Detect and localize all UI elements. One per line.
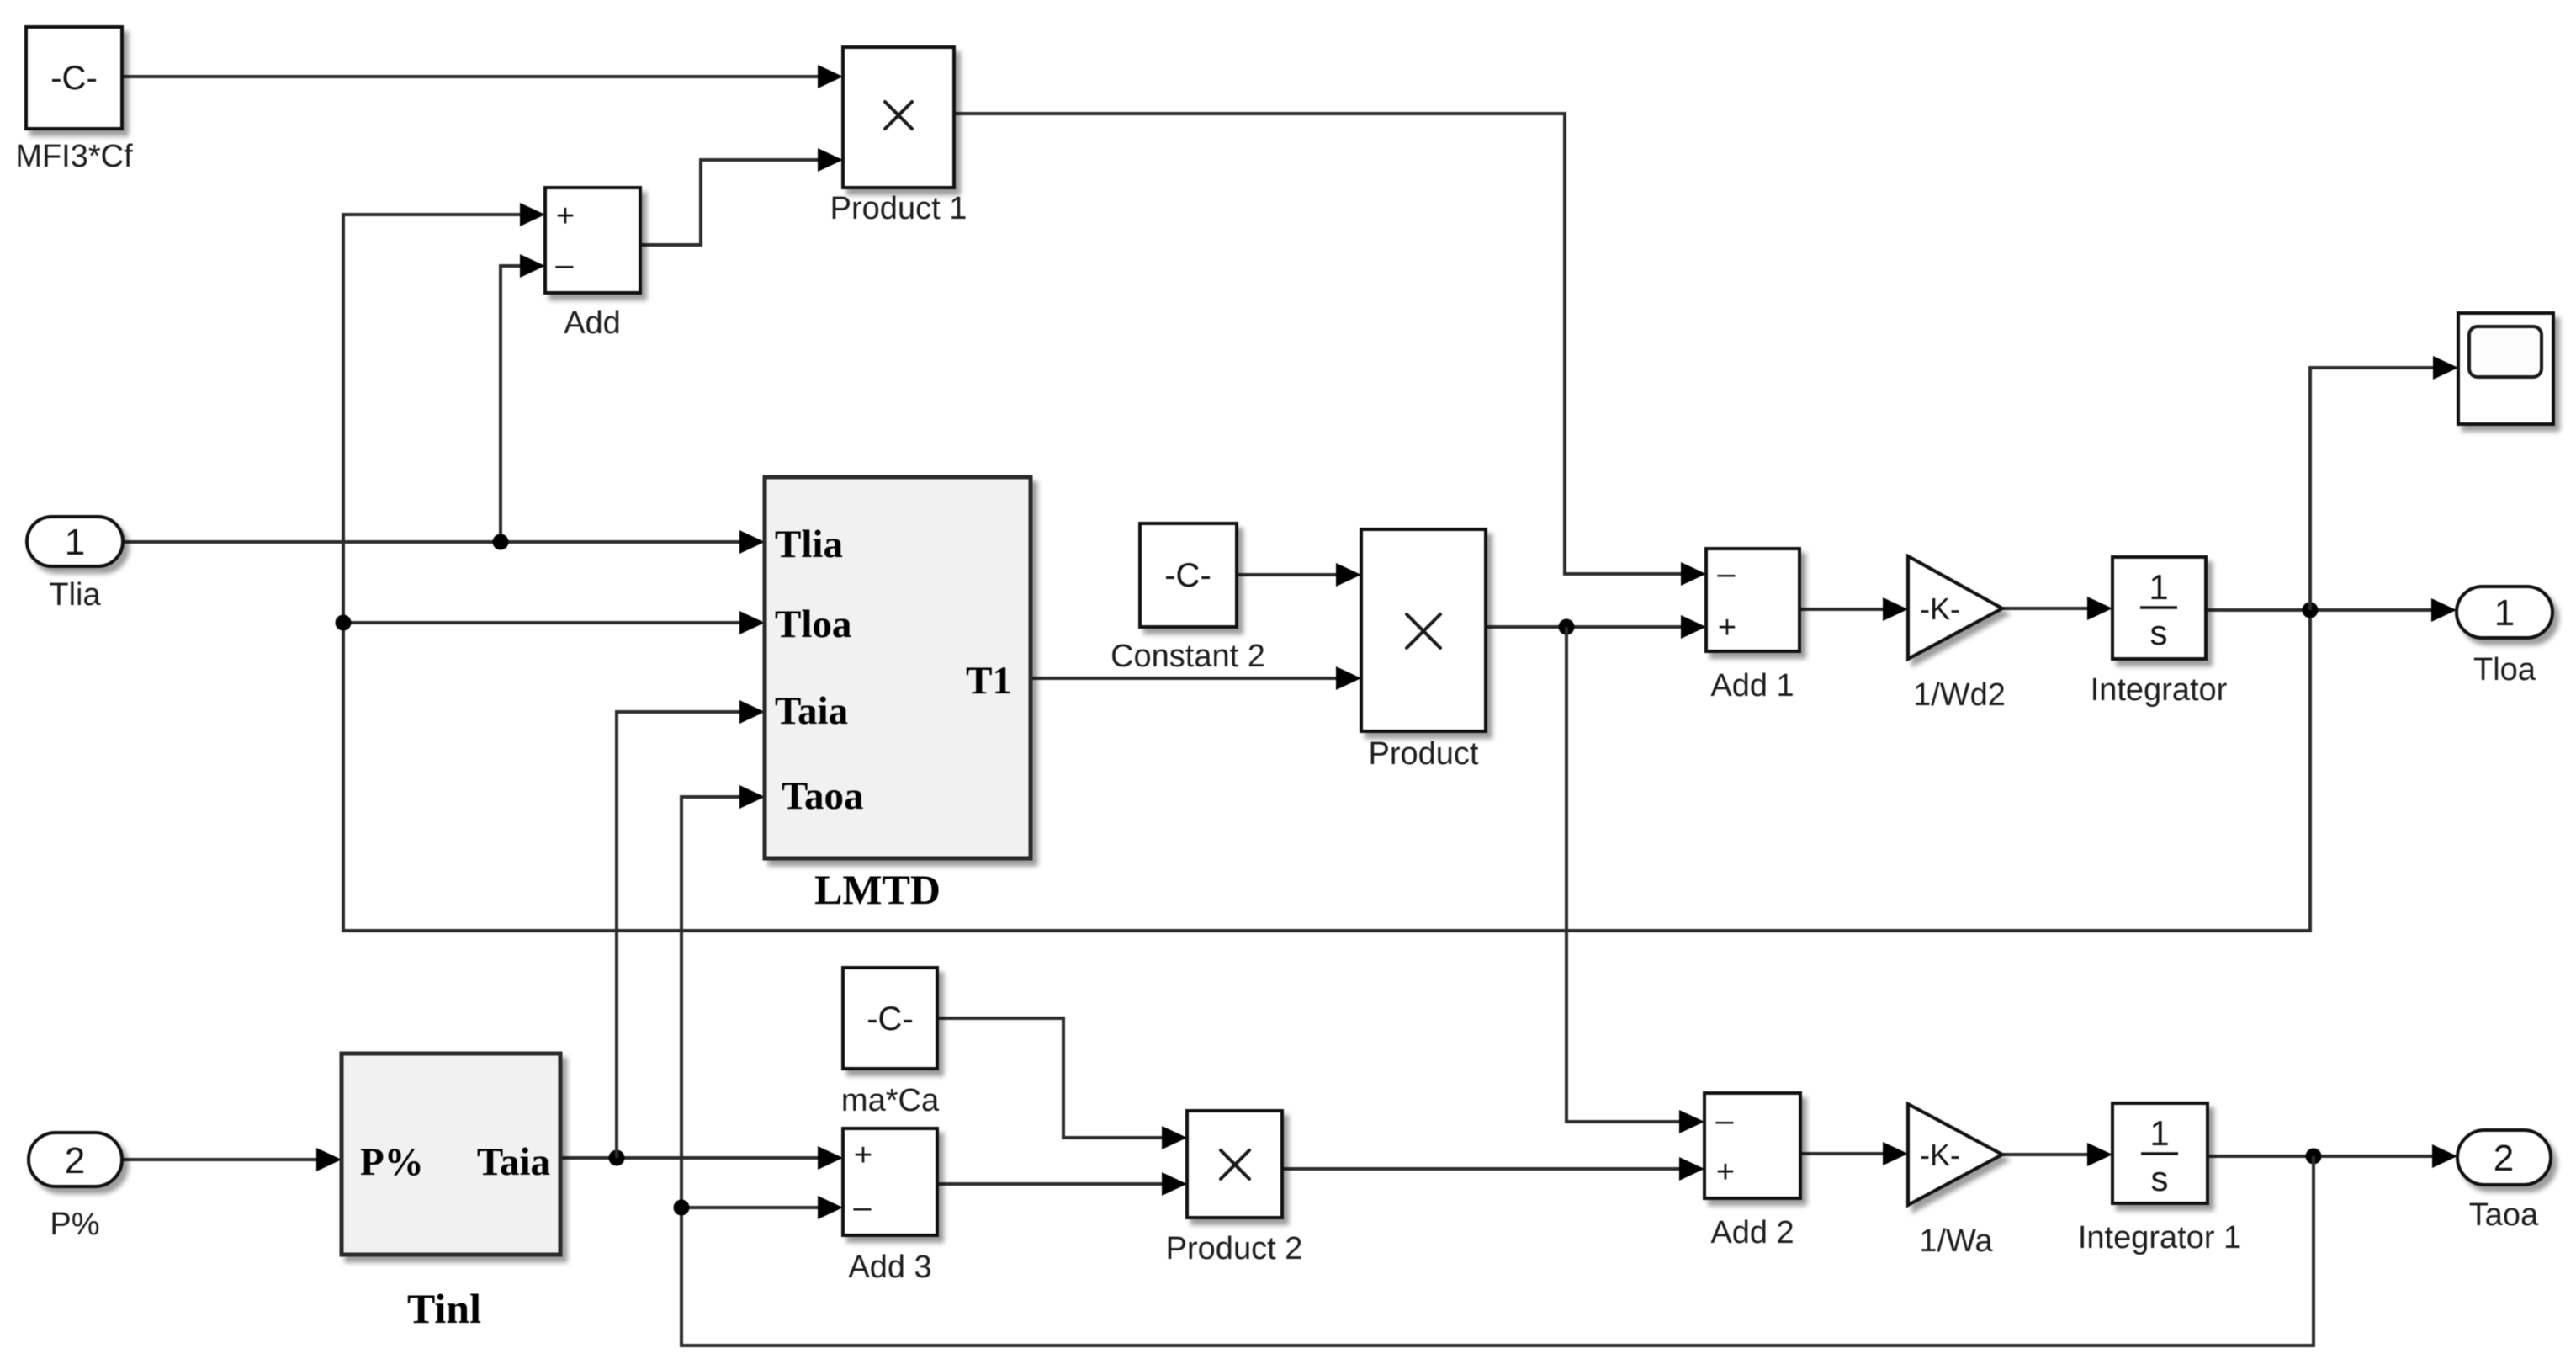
svg-text:Integrator: Integrator <box>2091 672 2228 708</box>
integrator Integrator <box>2091 557 2228 708</box>
svg-text:1: 1 <box>2494 592 2515 634</box>
svg-text:+: + <box>556 199 575 234</box>
svg-text:–: – <box>853 1190 872 1225</box>
svg-text:2: 2 <box>65 1140 85 1181</box>
svg-text:Taia: Taia <box>775 689 848 733</box>
svg-text:Product 2: Product 2 <box>1166 1231 1303 1266</box>
constant ma*Ca <box>841 968 940 1118</box>
node Tlia junction <box>493 534 509 550</box>
subsystem Tinl <box>342 1054 560 1332</box>
svg-text:-K-: -K- <box>1920 1138 1960 1172</box>
svg-text:1: 1 <box>2149 567 2168 607</box>
gain 1/Wd2 <box>1908 556 2006 713</box>
svg-text:Add 3: Add 3 <box>848 1250 931 1285</box>
svg-text:ma*Ca: ma*Ca <box>841 1083 940 1118</box>
svg-text:–: – <box>1715 1103 1734 1139</box>
svg-text:T1: T1 <box>966 659 1012 703</box>
constant MFI3*Cf <box>15 27 133 174</box>
svg-text:P%: P% <box>360 1140 424 1184</box>
svg-text:Add: Add <box>564 305 621 341</box>
wire P% inport to Tinl input <box>122 1148 342 1171</box>
wire Add 2 output to gain 1/Wa <box>1800 1142 1908 1165</box>
inport 1 Tlia <box>27 517 123 613</box>
wire Product output to Add 1 plus input <box>1486 615 1706 639</box>
svg-text:Taia: Taia <box>477 1140 550 1184</box>
wire Integrator output to Tloa outport <box>2206 598 2457 622</box>
wire junction up to Scope input <box>2310 356 2458 610</box>
wire Product 2 output to Add 2 plus input <box>1282 1157 1704 1181</box>
product block Product 2 <box>1166 1111 1303 1266</box>
wire Integrator 1 output to Taoa outport <box>2208 1144 2457 1168</box>
svg-text:Taoa: Taoa <box>782 774 864 818</box>
wire Tlia inport to LMTD Tlia input <box>123 530 765 554</box>
svg-text:Constant 2: Constant 2 <box>1110 639 1265 674</box>
wire Tlia branch up to Add minus input <box>501 254 545 542</box>
svg-text:+: + <box>1718 610 1736 645</box>
node Integrator output junction <box>2303 603 2319 618</box>
gain 1/Wa <box>1908 1104 2002 1259</box>
wire Add 1 output to gain 1/Wd2 <box>1799 597 1908 621</box>
wire Product output branch down to Add 2 minus input <box>1566 627 1704 1133</box>
svg-text:Tloa: Tloa <box>775 603 851 646</box>
svg-text:1/Wa: 1/Wa <box>1919 1224 1993 1259</box>
svg-text:1: 1 <box>65 522 85 563</box>
svg-text:-K-: -K- <box>1920 592 1960 626</box>
wire ma*Ca output to Product 2 input 1 <box>937 1018 1187 1149</box>
inport 2 P% <box>29 1133 122 1242</box>
wire Tinl Taia output to Add 3 plus input <box>560 1146 843 1170</box>
wire LMTD T1 output to Product input 2 <box>1031 666 1361 690</box>
product block Product <box>1361 529 1486 772</box>
sum block Add 2 <box>1704 1093 1800 1250</box>
svg-text:–: – <box>555 247 574 283</box>
svg-text:Tloa: Tloa <box>2473 652 2536 687</box>
svg-text:Tlia: Tlia <box>775 523 843 566</box>
svg-text:+: + <box>1716 1155 1735 1190</box>
node Integrator 1 output junction <box>2306 1149 2322 1165</box>
outport 1 Tloa <box>2457 587 2552 687</box>
sum block Add 1 <box>1706 549 1799 703</box>
wire gain 1/Wd2 output to Integrator <box>2002 597 2112 620</box>
svg-text:Tlia: Tlia <box>49 577 101 613</box>
product block Product 1 <box>830 47 967 226</box>
svg-text:Add 2: Add 2 <box>1710 1215 1794 1250</box>
wire Add 3 output to Product 2 input 2 <box>937 1172 1187 1196</box>
wire Constant 2 to Product input 1 <box>1237 563 1361 587</box>
svg-text:Product: Product <box>1369 736 1479 772</box>
outport 2 Taoa <box>2457 1130 2551 1233</box>
svg-text:1/Wd2: 1/Wd2 <box>1913 677 2006 713</box>
svg-text:s: s <box>2151 1159 2169 1198</box>
scope Scope <box>2458 313 2553 424</box>
svg-text:-C-: -C- <box>50 60 98 97</box>
svg-text:Tinl: Tinl <box>407 1285 481 1332</box>
wire Taoa feedback branch to Add 3 minus input <box>681 1196 843 1219</box>
wire Tloa feedback: integrator junction down, left, up to Add plus input <box>343 203 2310 931</box>
svg-text:LMTD: LMTD <box>814 866 941 913</box>
svg-text:+: + <box>854 1138 872 1173</box>
svg-text:Integrator 1: Integrator 1 <box>2078 1220 2241 1255</box>
svg-text:2: 2 <box>2494 1138 2514 1179</box>
integrator Integrator 1 <box>2078 1103 2241 1255</box>
sum block Add <box>545 188 640 341</box>
node Taia junction <box>609 1150 625 1166</box>
wire Taoa feedback: junction down, left, up to LMTD Taoa input <box>681 785 2314 1346</box>
wire Taia branch up to LMTD Taia input <box>617 700 765 1158</box>
node Product output junction <box>1559 619 1575 635</box>
svg-text:-C-: -C- <box>867 1001 914 1038</box>
wire MFI3*Cf to Product 1 input 1 <box>122 65 843 88</box>
wire Add output to Product 1 input 2 <box>640 148 843 245</box>
wire Product 1 output to Add 1 minus input <box>954 114 1706 586</box>
wire gain 1/Wa output to Integrator 1 <box>2002 1143 2112 1166</box>
node Taoa feedback junction <box>674 1200 690 1216</box>
svg-text:1: 1 <box>2149 1113 2169 1153</box>
svg-text:s: s <box>2150 613 2168 652</box>
wire Tloa feedback branch to LMTD Tloa input <box>343 611 765 634</box>
sum block Add 3 <box>843 1128 937 1285</box>
svg-text:Taoa: Taoa <box>2469 1197 2539 1233</box>
svg-text:P%: P% <box>50 1207 99 1242</box>
svg-text:MFI3*Cf: MFI3*Cf <box>15 139 133 174</box>
svg-text:Add 1: Add 1 <box>1710 668 1794 703</box>
svg-text:Product 1: Product 1 <box>830 191 967 226</box>
subsystem LMTD <box>765 477 1031 913</box>
node Tloa feedback junction <box>336 615 352 631</box>
svg-text:-C-: -C- <box>1164 557 1211 594</box>
constant Constant 2 <box>1110 523 1265 674</box>
svg-text:–: – <box>1717 556 1736 592</box>
